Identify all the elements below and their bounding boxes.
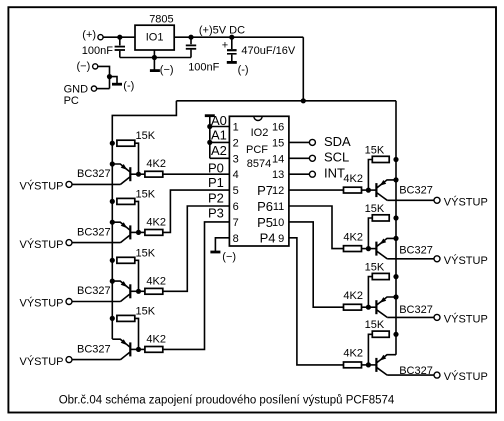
svg-text:8: 8 [233, 233, 239, 245]
wire 4K2 to base (right Q5) [362, 189, 369, 191]
wire collector to output (left Q4) [72, 359, 121, 361]
svg-text:(−): (−) [222, 251, 236, 263]
svg-text:P7: P7 [257, 183, 273, 198]
svg-text:4K2: 4K2 [343, 290, 363, 302]
wire 4K2 to P3 pin 7 [163, 222, 230, 350]
svg-text:15K: 15K [365, 144, 385, 156]
terminal SDA [309, 139, 315, 145]
wire A0 to pin 1 [210, 126, 230, 128]
transistor Q5 BC327 (right) [368, 180, 396, 200]
node C3 top junction [229, 35, 234, 40]
wire collector to output (right Q5) [387, 199, 434, 201]
node left rail to 15K (Q3) [110, 258, 115, 263]
wire base to 4K2 (left Q4) [139, 348, 145, 350]
wire P4 pin 9 to 4K2 [289, 238, 344, 365]
wire collector to output (right Q7) [387, 316, 434, 318]
wire A0-A2 bus [209, 116, 211, 159]
regulator IO1 7805 body [135, 25, 174, 50]
svg-text:4K2: 4K2 [146, 333, 166, 345]
terminal VYSTUP (left Q4) [66, 357, 72, 363]
node base junction (right Q5) [366, 188, 371, 193]
wire 15K to base (right Q7) [368, 277, 372, 308]
wire collector to output (left Q2) [72, 242, 121, 244]
svg-text:(−): (−) [77, 60, 91, 72]
svg-text:BC327: BC327 [399, 184, 433, 196]
wire base to 4K2 (left Q1) [139, 173, 145, 175]
terminal VYSTUP (right Q8) [434, 372, 440, 378]
ground bar near GND PC [112, 83, 122, 86]
capacitor C3 470uF/16V electrolytic [227, 37, 237, 61]
svg-text:7805: 7805 [149, 14, 173, 26]
emitter arrow (left Q3) [121, 281, 128, 287]
node base junction (left Q1) [136, 172, 141, 177]
terminal VYSTUP (left Q3) [66, 299, 72, 305]
wire collector to output (right Q8) [387, 374, 434, 376]
emitter arrow (right Q8) [380, 355, 387, 361]
wire base to 4K2 (left Q2) [139, 231, 145, 233]
svg-text:BC327: BC327 [77, 226, 111, 238]
wire IO1 ground pin [153, 50, 155, 58]
node right rail to 15K (Q5) [393, 157, 398, 162]
svg-text:SDA: SDA [324, 134, 351, 149]
terminal INT [309, 171, 315, 177]
node base junction (right Q6) [366, 246, 371, 251]
wire +5V drop to rail [302, 37, 304, 101]
node base junction (left Q2) [136, 230, 141, 235]
resistor 4K2 (left Q3) [145, 288, 163, 294]
svg-text:VÝSTUP: VÝSTUP [444, 254, 488, 267]
wire IO1 ground drop [153, 58, 155, 70]
resistor 15K (right Q7) [372, 273, 389, 279]
wire 15K to base (right Q6) [368, 218, 372, 249]
wire P5 pin 10 to 4K2 [289, 222, 344, 307]
svg-text:2: 2 [233, 137, 239, 149]
node emitter to rail (left Q3) [110, 279, 115, 284]
svg-text:4K2: 4K2 [343, 231, 363, 243]
wire 15K to base (left Q1) [135, 143, 139, 174]
wire 4K2 to base (right Q6) [362, 248, 369, 250]
wire +5V horizontal rail [176, 100, 396, 102]
node right rail to 15K (Q7) [393, 274, 398, 279]
wire SCL [289, 157, 310, 159]
terminal (+) input [98, 35, 103, 40]
node emitter to rail (right Q6) [393, 236, 398, 241]
svg-text:100nF: 100nF [188, 61, 219, 73]
node emitter to rail (left Q2) [110, 220, 115, 225]
svg-text:7: 7 [233, 217, 239, 229]
wire +5V right rail [395, 101, 397, 355]
node base junction (right Q7) [366, 305, 371, 310]
wire 15K to base (left Q3) [135, 260, 139, 291]
node A0 bus junction [207, 124, 212, 129]
wire GND PC terminal [97, 88, 110, 90]
resistor 4K2 (right Q8) [344, 362, 362, 368]
emitter arrow (right Q7) [380, 297, 387, 303]
svg-text:P4: P4 [260, 230, 276, 245]
resistor 4K2 (right Q5) [344, 187, 362, 193]
node left rail to 15K (Q2) [110, 199, 115, 204]
svg-text:10: 10 [272, 217, 284, 229]
transistor Q7 BC327 (right) [368, 297, 396, 317]
svg-text:100nF: 100nF [82, 45, 113, 57]
resistor 4K2 (left Q4) [145, 347, 163, 353]
node +5V rail junction [301, 98, 306, 103]
resistor 15K (left Q4) [117, 315, 135, 321]
wire collector to output (left Q1) [72, 183, 121, 185]
svg-text:15K: 15K [365, 203, 385, 215]
IC IO2 PCF8574 body [229, 116, 289, 246]
svg-text:A1: A1 [211, 127, 227, 142]
svg-text:15K: 15K [136, 305, 156, 317]
svg-text:BC327: BC327 [77, 168, 111, 180]
resistor 15K (right Q5) [372, 156, 389, 162]
node base junction (left Q4) [136, 347, 141, 352]
svg-text:PC: PC [64, 95, 79, 107]
transistor Q4 BC327 (left) [112, 339, 138, 359]
wire 4K2 to base (right Q7) [362, 306, 369, 308]
svg-text:(+)5V DC: (+)5V DC [199, 25, 245, 37]
svg-text:P1: P1 [208, 175, 224, 190]
svg-text:14: 14 [272, 153, 284, 165]
resistor 15K (right Q8) [372, 331, 389, 337]
svg-text:3: 3 [233, 153, 239, 165]
svg-text:IO1: IO1 [146, 31, 164, 43]
terminal GND PC [91, 86, 96, 91]
svg-text:4K2: 4K2 [146, 275, 166, 287]
svg-text:(+): (+) [82, 29, 96, 41]
capacitor C1 100nF (input) [115, 37, 125, 57]
svg-text:4K2: 4K2 [343, 348, 363, 360]
resistor 15K (left Q3) [117, 257, 135, 263]
svg-text:P6: P6 [257, 199, 273, 214]
resistor 15K (left Q1) [117, 140, 135, 146]
svg-text:BC327: BC327 [77, 343, 111, 355]
resistor 4K2 (left Q2) [145, 230, 163, 236]
emitter arrow (left Q4) [121, 339, 128, 345]
resistor 4K2 (right Q6) [344, 246, 362, 252]
wire A2 to pin 3 [210, 157, 230, 159]
svg-text:VÝSTUP: VÝSTUP [444, 195, 488, 208]
wire (-) terminal to GND node [98, 66, 110, 88]
node left rail to 15K (Q4) [110, 316, 115, 321]
wire INT [289, 173, 310, 175]
node emitter to rail (left Q1) [110, 161, 115, 166]
wire 4K2 to P1 pin 5 [163, 190, 230, 232]
node base junction (left Q3) [136, 289, 141, 294]
svg-text:15K: 15K [365, 319, 385, 331]
svg-text:P2: P2 [208, 190, 224, 205]
svg-text:GND: GND [64, 84, 89, 96]
svg-text:INT: INT [324, 166, 345, 181]
svg-text:Obr.č.04 schéma zapojení proud: Obr.č.04 schéma zapojení proudového posí… [59, 395, 395, 407]
wire 15K to base (right Q8) [368, 334, 372, 365]
node GND junction [107, 74, 112, 79]
svg-text:16: 16 [272, 122, 284, 134]
svg-text:15K: 15K [136, 188, 156, 200]
svg-text:8574: 8574 [247, 158, 271, 170]
resistor 15K (right Q6) [372, 215, 389, 221]
wire IO1 output +5V [174, 36, 303, 38]
wire pin 8 to ground [215, 238, 229, 251]
node emitter to rail (right Q7) [393, 294, 398, 299]
terminal VYSTUP (right Q7) [434, 314, 440, 320]
wire collector to output (left Q3) [72, 301, 121, 303]
svg-text:4: 4 [233, 169, 239, 181]
node IO1 ground junction [152, 55, 157, 60]
resistor 15K (left Q2) [117, 198, 135, 204]
node C2 top junction [188, 35, 193, 40]
svg-text:5: 5 [233, 185, 239, 197]
svg-text:470uF/16V: 470uF/16V [241, 45, 295, 57]
wire collector to output (right Q6) [387, 258, 434, 260]
capacitor C2 100nF (output) [186, 37, 196, 57]
wire A1 to pin 2 [210, 141, 230, 143]
wire +5V left rail [112, 101, 176, 339]
terminal (-) power input [93, 64, 98, 69]
ground bar at pin 8 [210, 251, 220, 254]
emitter arrow (right Q6) [380, 239, 387, 245]
svg-text:4K2: 4K2 [343, 173, 363, 185]
resistor 4K2 (right Q7) [344, 304, 362, 310]
svg-text:VÝSTUP: VÝSTUP [19, 297, 63, 310]
emitter arrow (left Q1) [121, 164, 128, 170]
wire P6 pin 11 to 4K2 [289, 206, 344, 249]
node emitter to rail (right Q5) [393, 177, 398, 182]
svg-text:9: 9 [278, 233, 284, 245]
wire SDA [289, 141, 310, 143]
ground bar at IO1 [150, 69, 160, 72]
svg-text:11: 11 [273, 201, 284, 213]
wire base to 4K2 (left Q3) [139, 290, 145, 292]
wire (+) input to IO1 [103, 36, 135, 38]
svg-text:BC327: BC327 [399, 245, 433, 257]
wire 4K2 to P2 pin 6 [163, 206, 230, 291]
svg-text:15: 15 [272, 137, 284, 149]
node C1 top junction [117, 35, 122, 40]
svg-text:(-): (-) [238, 64, 249, 76]
resistor 4K2 (left Q1) [145, 171, 163, 177]
svg-text:1: 1 [233, 122, 239, 134]
wire GND branch to ground symbol [110, 77, 118, 84]
svg-text:(−): (−) [160, 64, 174, 76]
wire 4K2 to P0 pin 4 [163, 173, 230, 175]
svg-text:13: 13 [272, 169, 284, 181]
terminal VYSTUP (left Q1) [66, 181, 72, 187]
terminal VYSTUP (right Q6) [434, 256, 440, 262]
svg-text:15K: 15K [136, 247, 156, 259]
wire 15K to base (left Q2) [135, 201, 139, 232]
svg-text:P0: P0 [208, 160, 224, 175]
svg-text:6: 6 [233, 201, 239, 213]
emitter arrow (right Q5) [380, 180, 387, 186]
svg-text:+: + [222, 39, 228, 51]
terminal VYSTUP (left Q2) [66, 240, 72, 246]
svg-text:4K2: 4K2 [146, 158, 166, 170]
emitter arrow (left Q2) [121, 222, 128, 228]
svg-text:A2: A2 [211, 143, 227, 158]
svg-text:SCL: SCL [324, 150, 349, 165]
svg-text:VÝSTUP: VÝSTUP [19, 355, 63, 368]
node base junction (right Q8) [366, 362, 371, 367]
svg-text:BC327: BC327 [77, 285, 111, 297]
svg-text:BC327: BC327 [399, 304, 433, 316]
node A1 bus junction [207, 140, 212, 145]
wire P7 pin 12 to 4K2 [289, 189, 344, 191]
transistor Q1 BC327 (left) [112, 164, 138, 184]
svg-text:15K: 15K [365, 261, 385, 273]
svg-text:A0: A0 [211, 113, 227, 128]
wire 15K to base (right Q5) [368, 160, 372, 191]
svg-text:VÝSTUP: VÝSTUP [444, 370, 488, 383]
node right rail to 15K (Q6) [393, 215, 398, 220]
transistor Q6 BC327 (right) [368, 238, 396, 258]
wire ground bus under IO1 [120, 57, 191, 59]
wire 15K to base (left Q4) [135, 318, 139, 349]
svg-text:PCF: PCF [246, 144, 268, 156]
svg-text:VÝSTUP: VÝSTUP [19, 238, 63, 251]
terminal VYSTUP (right Q5) [434, 197, 440, 203]
svg-text:12: 12 [272, 185, 284, 197]
svg-text:VÝSTUP: VÝSTUP [444, 312, 488, 325]
IC notch [254, 116, 262, 120]
terminal SCL [309, 155, 315, 161]
transistor Q8 BC327 (right) [368, 355, 396, 375]
svg-text:IO2: IO2 [251, 127, 269, 139]
svg-text:15K: 15K [136, 130, 156, 142]
node right rail to 15K (Q8) [393, 332, 398, 337]
node left rail to 15K (Q1) [110, 141, 115, 146]
ground tick for address bus [205, 114, 215, 117]
svg-text:(-): (-) [123, 80, 134, 92]
transistor Q2 BC327 (left) [112, 222, 138, 242]
svg-text:VÝSTUP: VÝSTUP [19, 180, 63, 193]
transistor Q3 BC327 (left) [112, 281, 138, 301]
svg-text:P3: P3 [208, 206, 224, 221]
svg-text:4K2: 4K2 [146, 216, 166, 228]
ground bar at C3 [227, 61, 237, 64]
svg-text:P5: P5 [257, 215, 273, 230]
wire 4K2 to base (right Q8) [362, 364, 369, 366]
